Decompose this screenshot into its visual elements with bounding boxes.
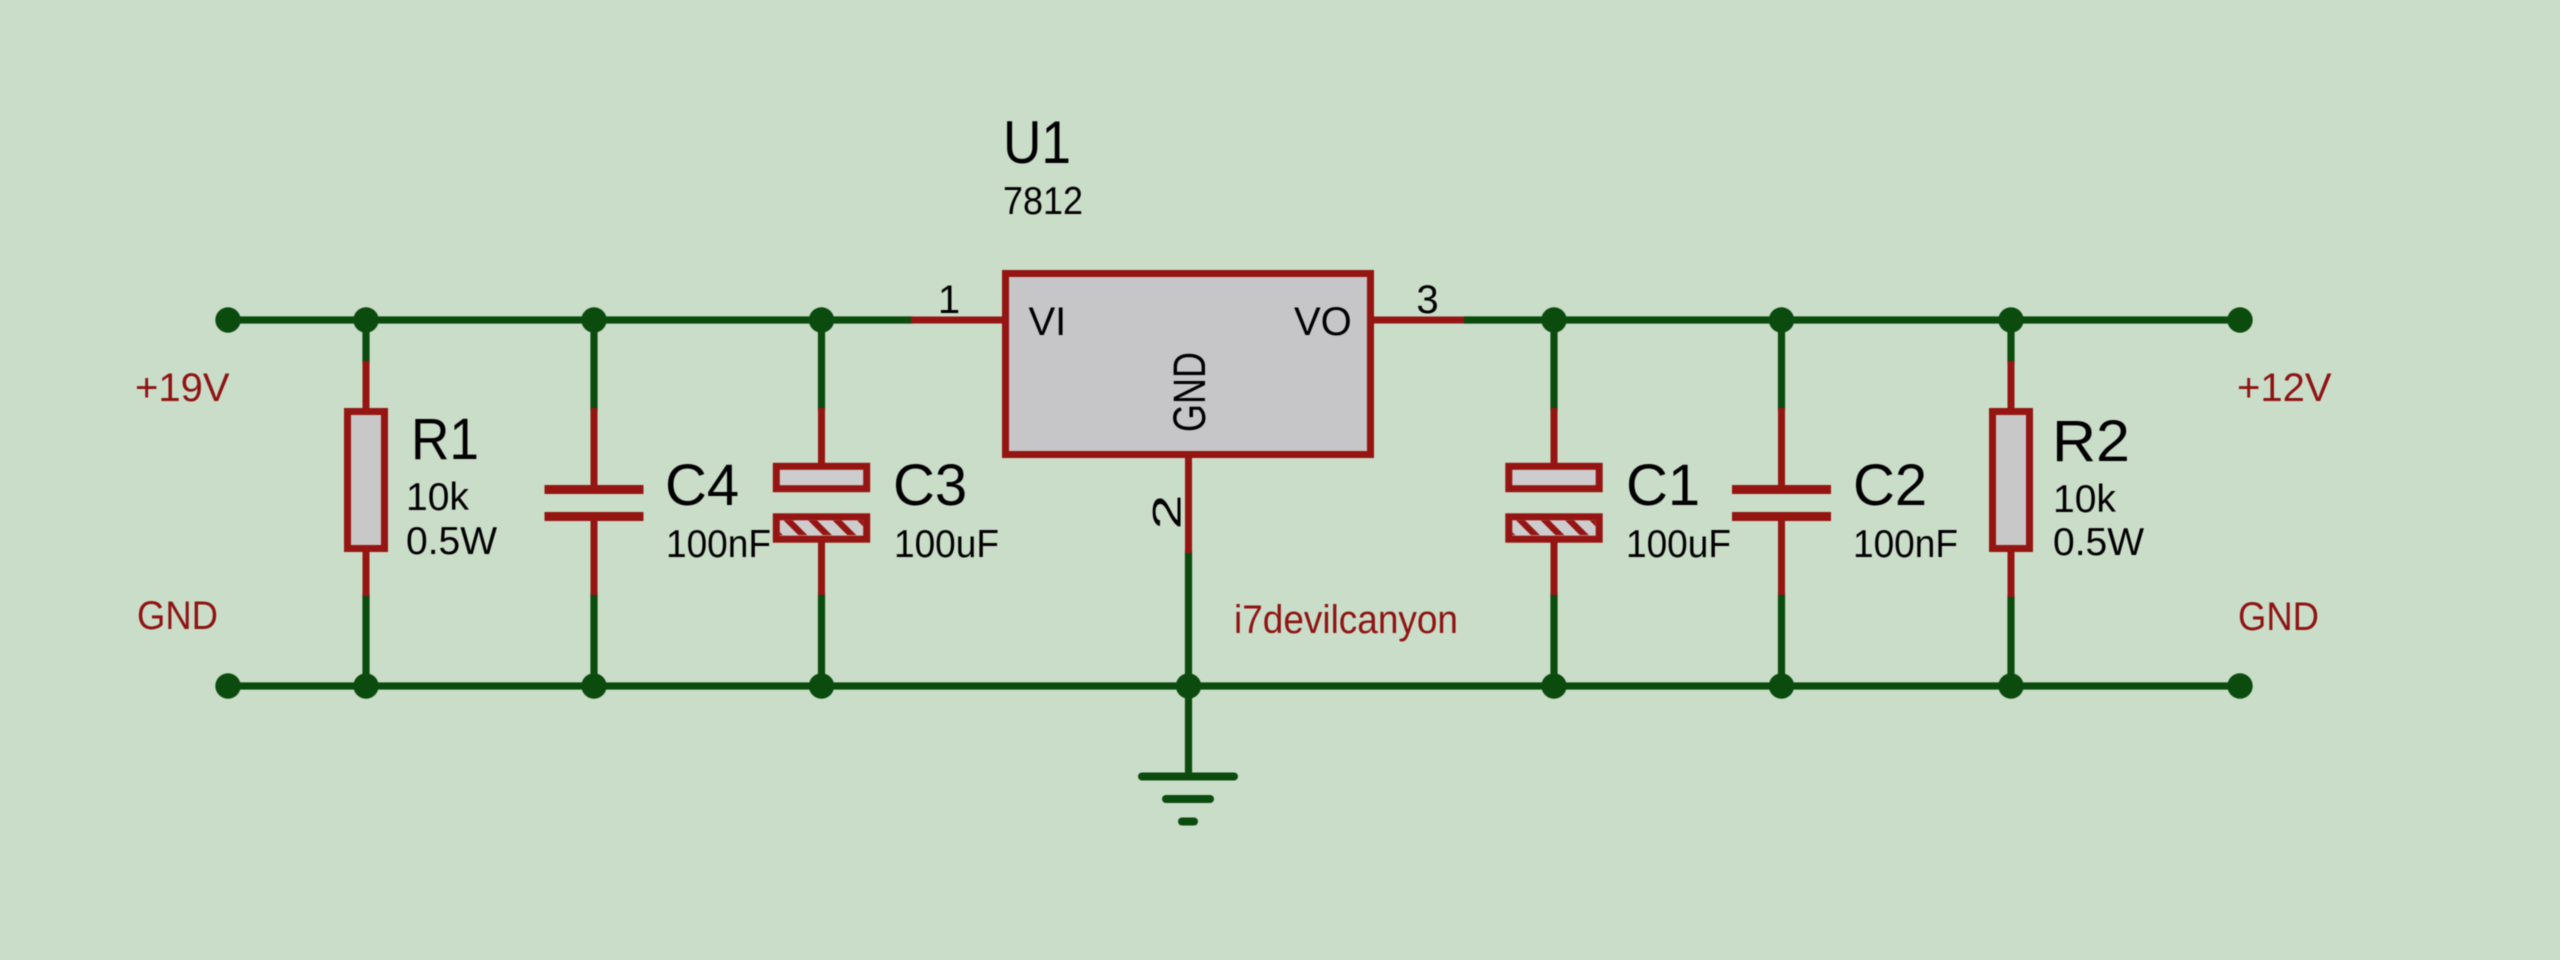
wire C2 bottom lead to rail [1778,592,1785,686]
svg-text:GND: GND [2238,595,2319,639]
junction bottom rail C4 [581,673,606,698]
svg-text:100uF: 100uF [1626,523,1731,566]
node top rail left end [215,307,240,332]
junction top rail C1 [1541,307,1566,332]
wire R2 top lead to rail [2007,320,2014,364]
capacitor C1 (polarised electrolytic) [1492,408,1614,595]
node bottom rail left end [215,673,240,698]
node top rail right end [2227,307,2252,332]
svg-text:+19V: +19V [135,366,230,410]
U1 pin 2 lead [1185,456,1192,553]
wire R2 bottom lead to rail [2007,595,2014,686]
U1 pin 3 lead [1372,317,1464,324]
wire C4 top lead to rail [590,320,597,411]
resistor R2 [1993,361,2030,597]
junction top rail C2 [1769,307,1794,332]
wire R1 top lead to rail [362,320,369,364]
svg-text:2: 2 [1146,495,1190,530]
junction top rail C3 [809,307,834,332]
svg-text:i7devilcanyon: i7devilcanyon [1234,598,1458,642]
junction bottom rail C2 [1769,673,1794,698]
wire C4 bottom lead to rail [590,592,597,686]
wire C2 top lead to rail [1778,320,1785,411]
svg-text:C2: C2 [1853,453,1927,518]
U1 body [1006,274,1371,455]
svg-text:R2: R2 [2052,409,2130,474]
capacitor C2 [1732,408,1831,595]
svg-text:10k: 10k [2053,478,2116,521]
svg-text:100uF: 100uF [894,523,999,566]
svg-text:C3: C3 [893,453,967,518]
svg-text:GND: GND [137,594,218,638]
svg-text:U1: U1 [1003,109,1071,176]
wire C1 top lead to rail [1550,320,1557,411]
svg-text:100nF: 100nF [666,523,771,566]
svg-text:7812: 7812 [1003,180,1083,223]
wire C1 bottom lead to rail [1550,592,1557,686]
svg-text:C1: C1 [1626,453,1700,518]
svg-text:R1: R1 [411,407,479,472]
svg-text:VI: VI [1029,300,1067,344]
capacitor C4 [545,408,644,595]
junction top rail C4 [581,307,606,332]
junction bottom rail R1 [353,673,378,698]
svg-text:0.5W: 0.5W [406,520,497,563]
svg-text:10k: 10k [406,476,469,519]
wire ground stem [1185,686,1192,774]
svg-text:+12V: +12V [2237,366,2332,410]
svg-text:0.5W: 0.5W [2053,521,2144,564]
junction bottom rail C3 [809,673,834,698]
svg-text:1: 1 [938,278,960,322]
svg-text:100nF: 100nF [1853,523,1958,566]
wire bottom rail (GND net) [228,682,2240,689]
svg-text:VO: VO [1294,300,1352,344]
wire top rail right segment (+12V net) [1464,316,2240,323]
resistor R1 [348,361,385,596]
U1 pin 1 lead [911,317,1004,324]
junction top rail R1 [353,307,378,332]
junction bottom rail C1 [1541,673,1566,698]
wire C3 top lead to rail [818,320,825,411]
capacitor C3 (polarised electrolytic) [759,408,881,595]
wire C3 bottom lead to rail [818,592,825,686]
wire R1 bottom lead to rail [362,593,369,686]
junction bottom rail ground [1176,673,1201,698]
svg-text:C4: C4 [665,453,739,518]
wire U1 pin2 to ground rail [1185,551,1192,686]
junction top rail R2 [1998,307,2023,332]
svg-text:GND: GND [1164,352,1215,432]
node bottom rail right end [2227,673,2252,698]
ground [1142,777,1234,822]
wire top rail left segment (+19V net) [228,316,913,323]
IC U1 (7812 regulator body and pins) [911,274,1464,554]
junction bottom rail R2 [1998,673,2023,698]
svg-text:3: 3 [1416,278,1438,322]
